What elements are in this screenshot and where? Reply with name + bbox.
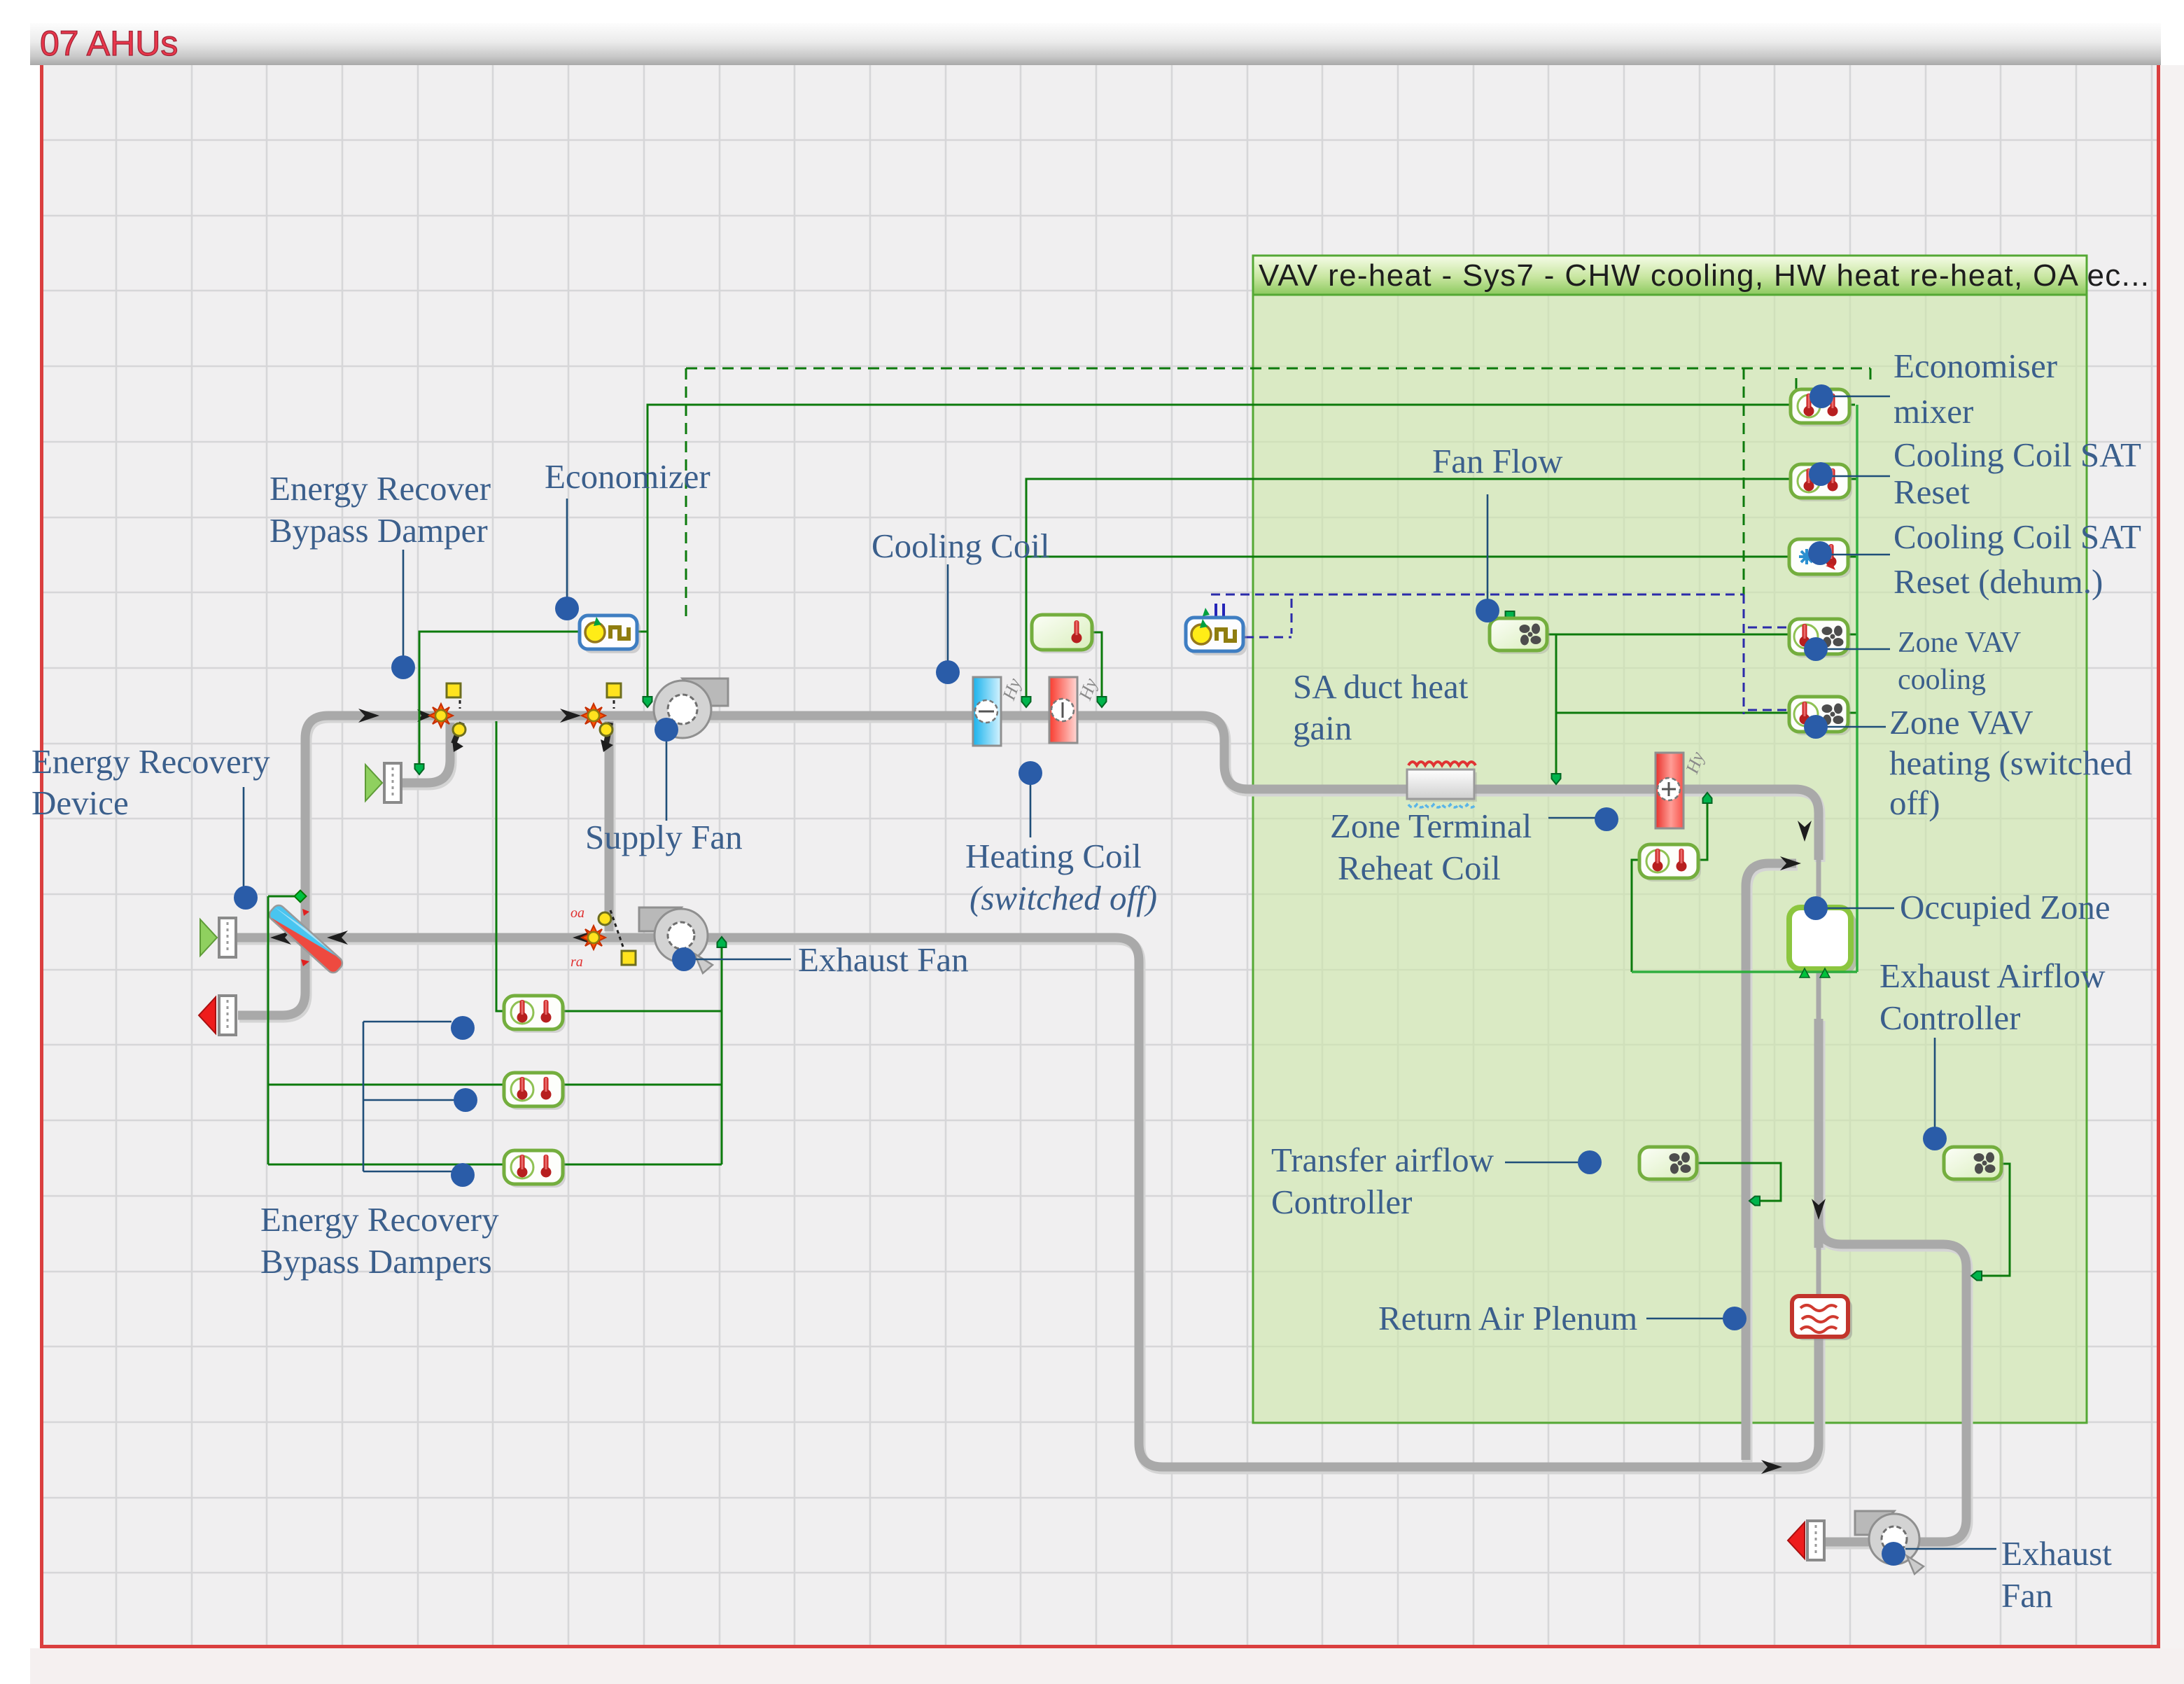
flow arrow supply to zone (down) — [1798, 821, 1812, 842]
bypass damper sensor 3 — [504, 1150, 566, 1188]
svg-text:Energy Recovery: Energy Recovery — [31, 742, 270, 781]
duct: exhaust outlet branch — [238, 945, 305, 1015]
exhaust outlet (lower left) — [219, 996, 236, 1035]
wire economizer to OA inlet — [419, 632, 581, 765]
wire economizer right + up to mixer bus — [636, 405, 1855, 632]
node bypass damper — [391, 655, 415, 679]
node zone terminal reheat — [1595, 807, 1618, 831]
dashed blue vertical — [1743, 594, 1745, 714]
svg-text:(switched off): (switched off) — [969, 879, 1157, 917]
svg-text:ra: ra — [570, 954, 583, 970]
zone VAV cooling box — [1789, 619, 1851, 657]
energy recovery device (diagonal heat-exchanger) — [266, 898, 349, 976]
green system box — [1253, 256, 2087, 1423]
svg-text:Controller: Controller — [1271, 1183, 1412, 1221]
wire zone bottom — [1632, 970, 1857, 973]
svg-text:Exhaust Fan: Exhaust Fan — [798, 940, 969, 979]
node occupied zone — [1804, 896, 1828, 920]
wire cooling coil SAT reset — [1026, 479, 1789, 697]
zone VAV heating box — [1789, 697, 1851, 735]
damper D3 (exhaust/recirc damper lower) — [570, 905, 636, 970]
svg-text:cooling: cooling — [1898, 664, 1986, 696]
title bar — [30, 23, 2161, 65]
wire supply duct to bypass sensor 1 — [496, 721, 504, 1011]
dashed blue stub to VAV cooling — [1748, 627, 1789, 629]
wire — [307, 718, 1820, 933]
flow arrow supply duct — [358, 709, 379, 723]
svg-text:oa: oa — [570, 905, 584, 921]
leader cooling coil — [947, 564, 949, 661]
svg-text:off): off) — [1889, 784, 1940, 822]
flow arrow exhaust duct right of ERD — [327, 931, 348, 945]
node economiser mixer — [1809, 384, 1833, 408]
wire VAV heating stub — [1849, 712, 1857, 714]
wire bypass sensor 3 row — [268, 1164, 504, 1166]
damper D2 (recirculation damper) — [582, 683, 621, 752]
zone terminal reheat coil — [1655, 749, 1708, 828]
leader economizer — [566, 499, 568, 597]
wire — [1820, 1223, 1968, 1544]
wire right bus vertical — [1856, 405, 1858, 972]
node CCSAT dehum — [1808, 541, 1832, 565]
node heating coil — [1018, 761, 1042, 785]
wire — [239, 947, 307, 1017]
node supply fan — [654, 718, 678, 742]
wire fan flow to VAV cooling — [1548, 634, 1789, 636]
wire ERD junction — [268, 896, 295, 898]
wire exhaust airflow controller — [1981, 1164, 2010, 1276]
duct: transfer air — [1746, 863, 1796, 1460]
return air plenum box — [1792, 1296, 1852, 1340]
arrows into zone bottom — [1800, 968, 1830, 977]
cooling coil SAT reset box — [1791, 464, 1852, 501]
flow arrow exhaust duct left of ERD — [270, 931, 291, 945]
exhaust outlet (bottom right) — [1807, 1521, 1824, 1560]
svg-text:Cooling Coil SAT: Cooling Coil SAT — [1893, 517, 2141, 556]
exhaust fan (left) — [639, 907, 713, 973]
wire VAV cooling stub — [1849, 634, 1857, 636]
wire — [605, 723, 616, 933]
svg-text:Controller: Controller — [1879, 998, 2020, 1037]
node fan flow — [1476, 599, 1499, 622]
leader CCSAT reset — [1832, 475, 1890, 478]
node economizer — [555, 597, 579, 620]
wire dehum line — [1026, 556, 1789, 558]
outside air inlet (lower, at ERD line) — [219, 918, 236, 957]
arrow up into duct at reheat coil — [1703, 793, 1712, 803]
svg-text:Reset (dehum.): Reset (dehum.) — [1893, 562, 2103, 601]
flow arrow transfer to zone (right) — [1780, 856, 1801, 870]
node cooling coil — [936, 660, 960, 684]
svg-text:Occupied Zone: Occupied Zone — [1900, 888, 2110, 926]
wire mixer box top tick — [1795, 378, 1798, 389]
node exhaust fan left — [672, 947, 696, 971]
node bypass sensor 3 — [451, 1163, 475, 1187]
node exhaust fan bottom — [1882, 1542, 1905, 1566]
duct: recirculation vertical — [605, 721, 614, 931]
supply fan U1 — [654, 679, 728, 738]
wire fan flow branch down to duct — [1555, 634, 1557, 774]
svg-text:Fan: Fan — [2001, 1576, 2053, 1615]
leader CCSAT dehum — [1831, 554, 1890, 556]
leader supply fan — [666, 741, 668, 821]
heating coil (switched off) — [1049, 676, 1101, 743]
duct: exhaust-fan branch right — [1819, 1221, 1966, 1542]
node bypass sensor 1 — [451, 1016, 475, 1040]
duct: outside-air inlet branch — [401, 723, 450, 783]
wire bypass sensor 3 to right bus — [562, 1164, 722, 1166]
transfer airflow sensor box — [1639, 1147, 1700, 1183]
leader zone VAV cooling — [1827, 648, 1890, 650]
duct: return + exhaust main — [235, 938, 1819, 1467]
leader energy recovery device — [243, 787, 245, 886]
svg-text:Transfer airflow: Transfer airflow — [1271, 1141, 1494, 1179]
arrow left into transfer duct — [1749, 1197, 1760, 1206]
svg-text:Energy Recovery: Energy Recovery — [260, 1200, 499, 1239]
svg-text:Exhaust: Exhaust — [2001, 1534, 2112, 1573]
wire fan flow branch to VAV heating — [1556, 712, 1789, 714]
wire reheat sensor left leg — [1632, 860, 1639, 972]
exhaust fan (bottom right) — [1855, 1511, 1924, 1574]
green junction diamond at ERD — [295, 891, 307, 903]
leader occupied zone — [1827, 907, 1894, 910]
duct: supply main — [305, 716, 1819, 931]
leader bracket bypass dampers — [363, 1022, 454, 1171]
zone reheat sensor — [1639, 844, 1701, 882]
arrow into duct after coils (2) — [1098, 697, 1107, 707]
svg-text:gain: gain — [1293, 709, 1352, 747]
duct neck below branch — [1816, 1248, 1821, 1296]
svg-text:Energy Recover: Energy Recover — [269, 469, 491, 508]
svg-text:Reset: Reset — [1893, 473, 1970, 511]
exhaust airflow sensor box — [1944, 1147, 2004, 1183]
economizer controller 2 (SA duct) — [1186, 618, 1247, 655]
fan flow sensor box — [1490, 618, 1550, 654]
bypass damper sensor 1 — [504, 996, 566, 1033]
dashed blue horizontal — [1211, 594, 1744, 596]
dashed blue near economizer 2 — [1245, 599, 1291, 637]
dashed blue stub to VAV heating — [1748, 709, 1789, 711]
svg-text:Device: Device — [31, 784, 129, 822]
dashed green vertical mid — [1743, 368, 1745, 602]
svg-text:Heating Coil: Heating Coil — [965, 837, 1142, 875]
duct neck below zone — [1816, 969, 1821, 1022]
arrow into OA inlet duct — [415, 764, 424, 774]
flow arrow exhaust duct at damper — [573, 931, 594, 945]
svg-text:Fan Flow: Fan Flow — [1432, 442, 1563, 480]
leader heating coil — [1030, 784, 1032, 837]
green box header — [1253, 256, 2087, 295]
svg-text:Zone Terminal: Zone Terminal — [1330, 807, 1532, 845]
leader return air plenum — [1646, 1318, 1723, 1320]
svg-text:heating (switched: heating (switched — [1889, 744, 2132, 782]
svg-text:SA duct heat: SA duct heat — [1293, 667, 1469, 706]
wire left bus vertical — [267, 896, 269, 1164]
arrow up into exhaust duct from bypass bus — [717, 937, 727, 947]
wire SAT reset box stub — [1849, 478, 1857, 480]
occupied zone box — [1789, 907, 1856, 973]
leader exhaust fan bottom — [1905, 1548, 1996, 1550]
svg-text:Bypass Damper: Bypass Damper — [269, 511, 488, 550]
wire economizer down to duct — [647, 632, 649, 697]
svg-text:07 AHUs: 07 AHUs — [40, 24, 178, 63]
dashed green horizontal — [686, 368, 1870, 370]
wire bypass right bus up to exhaust duct — [721, 947, 723, 1164]
leader transfer airflow — [1505, 1162, 1578, 1164]
node return air plenum — [1723, 1307, 1746, 1330]
node zone VAV cooling — [1804, 637, 1828, 661]
wire reheat sensor to duct — [1699, 802, 1707, 860]
node bypass sensor 2 — [454, 1088, 477, 1112]
leader fan flow — [1487, 494, 1489, 599]
svg-text:Exhaust Airflow: Exhaust Airflow — [1879, 956, 2106, 995]
economiser mixer box — [1791, 389, 1852, 426]
wire transfer controller — [1697, 1163, 1781, 1201]
arrow left into exhaust branch duct — [1971, 1272, 1982, 1281]
wire — [402, 725, 451, 785]
cooling coil sensor box — [1032, 615, 1095, 653]
dashed green drop to mixer — [1870, 368, 1872, 387]
wire cooling sensor to duct — [1091, 632, 1102, 697]
red tick above ERD — [302, 909, 309, 916]
outside air inlet (upper) — [384, 763, 401, 802]
green tick above economizer2 — [1203, 608, 1210, 616]
cooling coil — [973, 676, 1025, 746]
wire bypass sensor 2 row — [268, 1084, 504, 1086]
page margins tint — [2160, 65, 2184, 1684]
node CCSAT reset — [1809, 462, 1833, 486]
economizer controller — [580, 615, 640, 653]
svg-text:Economizer: Economizer — [545, 457, 710, 496]
arrow into duct after coils (1) — [1022, 697, 1031, 707]
wire bypass sensor 1 to right bus — [562, 1010, 722, 1013]
wire dehum box stub — [1849, 556, 1857, 558]
flow arrow bottom duct right — [1761, 1460, 1782, 1474]
svg-text:mixer: mixer — [1893, 392, 1973, 431]
node zone VAV heating — [1804, 715, 1828, 739]
duct neck into zone — [1816, 860, 1821, 910]
flow arrow before recirc damper — [560, 709, 581, 723]
cooling coil SAT reset dehum box — [1789, 539, 1851, 578]
bypass damper sensor 2 — [504, 1073, 566, 1110]
arrow into duct before fan — [643, 697, 652, 707]
leader economiser mixer — [1833, 396, 1890, 398]
svg-text:Cooling Coil SAT: Cooling Coil SAT — [1893, 436, 2141, 474]
svg-text:Bypass Dampers: Bypass Dampers — [260, 1242, 492, 1281]
leader exhaust fan left — [695, 959, 791, 961]
svg-text:Supply Fan: Supply Fan — [585, 818, 743, 856]
dashed green vertical to economizer — [685, 368, 687, 619]
svg-text:Economiser: Economiser — [1893, 347, 2057, 385]
wire fan flow dot to box — [1509, 611, 1511, 616]
SA duct heat gain element — [1407, 762, 1477, 807]
leader exhaust airflow controller — [1934, 1038, 1936, 1129]
flow arrow return down — [1812, 1199, 1826, 1220]
arrow into fan flow box top — [1506, 611, 1515, 622]
svg-text:Reheat Coil: Reheat Coil — [1338, 849, 1501, 887]
node exhaust airflow controller — [1923, 1127, 1947, 1150]
svg-text:VAV re-heat - Sys7 - CHW cooli: VAV re-heat - Sys7 - CHW cooling, HW hea… — [1259, 258, 2149, 293]
svg-text:Zone VAV: Zone VAV — [1889, 703, 2033, 742]
wire bypass sensor 2 to right bus — [562, 1084, 722, 1086]
leader zone VAV heating — [1827, 726, 1886, 728]
node transfer airflow — [1578, 1150, 1602, 1174]
svg-text:Cooling Coil: Cooling Coil — [871, 527, 1050, 565]
leader bypass damper label — [402, 550, 405, 657]
leader zone terminal — [1548, 817, 1595, 819]
arrow into SA duct — [1552, 774, 1561, 784]
red tick below ERD — [301, 959, 309, 966]
node energy recovery device — [234, 886, 258, 910]
wire — [1747, 865, 1798, 1462]
svg-text:Return Air Plenum: Return Air Plenum — [1378, 1299, 1637, 1337]
blue ticks above economizer 2 — [1216, 604, 1224, 619]
wire — [237, 940, 1820, 1469]
svg-text:Zone VAV: Zone VAV — [1898, 627, 2021, 659]
damper D1 (OA mixing damper) — [417, 683, 465, 752]
